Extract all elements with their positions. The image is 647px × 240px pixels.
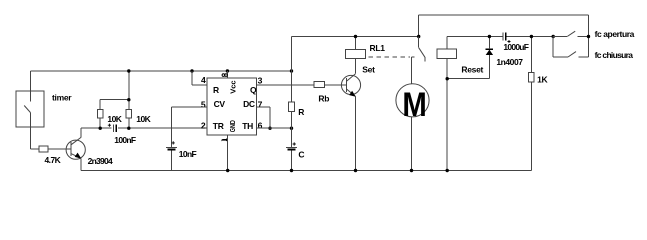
svg-text:2n3904: 2n3904 — [88, 156, 113, 166]
resistor R — [289, 102, 305, 117]
svg-text:1n4007: 1n4007 — [496, 57, 523, 67]
relay coil RL1 — [346, 35, 386, 59]
svg-text:M: M — [402, 85, 426, 124]
svg-text:4: 4 — [201, 75, 206, 85]
wire mid rail left segment — [292, 36, 419, 38]
op-amp U1 555 — [201, 74, 263, 142]
svg-text:CV: CV — [214, 99, 226, 109]
svg-text:fc apertura: fc apertura — [595, 29, 635, 39]
svg-text:5: 5 — [201, 99, 206, 109]
resistor 4.7K — [30, 146, 66, 165]
diode 1n4007 — [486, 35, 524, 79]
svg-text:1K: 1K — [537, 75, 548, 85]
svg-text:timer: timer — [52, 93, 72, 103]
wire rail y71 — [30, 70, 291, 72]
transistor Q2 — [341, 58, 360, 172]
svg-text:10nF: 10nF — [179, 149, 197, 159]
svg-text:C: C — [298, 149, 304, 159]
svg-text:R: R — [213, 85, 219, 95]
wire pin7 DC jog — [256, 107, 271, 130]
wire coil-diode link — [446, 77, 490, 80]
relay coil Reset — [437, 37, 483, 173]
svg-text:10K: 10K — [107, 114, 122, 124]
svg-text:3: 3 — [258, 75, 263, 85]
svg-text:TR: TR — [213, 121, 224, 131]
dashed link RL1 to contact — [369, 56, 411, 58]
switch fc apertura — [552, 29, 635, 39]
switch fc chiusura — [553, 37, 633, 61]
wire R-C branch vertical — [291, 37, 293, 171]
capacitor 10nF — [166, 141, 196, 170]
motor M — [396, 57, 429, 172]
svg-text:fc chiusura: fc chiusura — [595, 50, 634, 60]
svg-text:R: R — [298, 107, 304, 117]
capacitor C — [286, 142, 304, 172]
svg-text:10K: 10K — [136, 114, 151, 124]
label Set — [362, 65, 375, 75]
svg-text:GND: GND — [228, 120, 237, 132]
wire trigger line y128 — [81, 127, 207, 129]
svg-text:Set: Set — [362, 65, 375, 75]
svg-text:2: 2 — [201, 121, 206, 131]
wire pin4 reset — [192, 71, 207, 85]
wire pin3 output — [256, 84, 314, 86]
svg-text:Vcc: Vcc — [228, 80, 237, 93]
resistor Rb — [314, 81, 347, 103]
node dots rail y71 — [127, 69, 293, 72]
resistor 1K — [529, 35, 549, 171]
svg-text:TH: TH — [242, 121, 253, 131]
wire top rail — [419, 15, 589, 57]
svg-text:Q: Q — [250, 85, 257, 95]
transistor 2n3904 — [66, 128, 113, 170]
svg-text:DC: DC — [243, 99, 255, 109]
resistor 10K left — [98, 100, 129, 129]
wire mid rail right segment — [447, 36, 553, 38]
timer switch — [16, 71, 72, 149]
svg-text:Reset: Reset — [461, 65, 483, 75]
capacitor 100nF — [108, 124, 136, 146]
wire bottom rail — [81, 170, 531, 172]
svg-text:RL1: RL1 — [370, 43, 386, 53]
svg-text:100nF: 100nF — [114, 135, 136, 145]
svg-text:Rb: Rb — [318, 94, 329, 104]
wire pin8 stub — [226, 71, 228, 78]
wire pin6 TH — [256, 127, 293, 130]
svg-text:1000uF: 1000uF — [503, 42, 528, 52]
resistor 10K right — [126, 71, 152, 128]
svg-text:4.7K: 4.7K — [45, 155, 62, 165]
wire pin1 gnd stub — [226, 135, 229, 172]
wire pin5 CV — [172, 107, 207, 147]
relay contact RL1 — [411, 35, 425, 62]
svg-text:7: 7 — [258, 99, 263, 109]
capacitor 1000uF — [503, 32, 529, 52]
node dots trigger line — [99, 98, 131, 130]
svg-text:6: 6 — [258, 121, 263, 131]
